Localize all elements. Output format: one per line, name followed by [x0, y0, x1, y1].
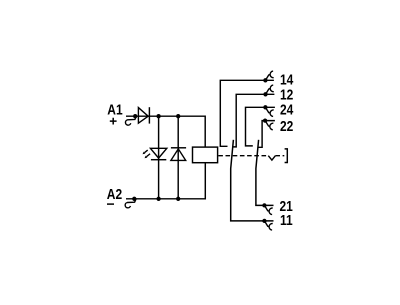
svg-text:24: 24: [280, 101, 294, 118]
svg-text:A2: A2: [107, 186, 123, 203]
svg-text:22: 22: [280, 118, 294, 135]
terminal clamp 21: [265, 206, 273, 215]
LED arrows: [145, 150, 151, 157]
suppressor diode: [171, 149, 186, 161]
node A1 junction: [133, 114, 137, 118]
terminal clamp 24: [266, 108, 274, 117]
svg-text:14: 14: [280, 71, 294, 88]
node bottom diode branch: [176, 197, 180, 201]
wire contact 14: [220, 80, 274, 146]
terminal clamp 11: [265, 221, 273, 230]
node 14: [263, 78, 267, 82]
terminal clamp 22: [265, 121, 273, 130]
node 12: [263, 92, 267, 96]
node 22: [263, 118, 267, 122]
node top diode branch: [176, 114, 180, 118]
contact arm pole 2: [256, 140, 274, 206]
wire contact 22: [258, 121, 275, 148]
wire suppressor branch: [177, 116, 179, 199]
terminal clamp A2: [125, 199, 136, 208]
terminal clamp 12: [266, 85, 274, 94]
plus sign: [110, 118, 117, 125]
mechanical link dashed: [218, 155, 284, 157]
wire A1 top rail to coil: [126, 116, 205, 147]
LED indicator: [150, 148, 166, 158]
svg-text:11: 11: [280, 212, 293, 229]
wire contact 12: [233, 94, 274, 147]
node 21: [262, 203, 266, 207]
relay coil K1: [193, 147, 218, 163]
node bottom LED branch: [156, 197, 160, 201]
node 24: [263, 105, 267, 109]
svg-text:12: 12: [280, 86, 294, 103]
node 11: [262, 219, 266, 223]
terminal clamp 14: [266, 71, 274, 80]
contact arm pole 1: [231, 140, 274, 221]
minus sign: [107, 203, 114, 205]
diode D1: [138, 108, 148, 124]
node top LED branch: [156, 114, 160, 118]
terminal clamp A1: [125, 117, 136, 126]
svg-text:A1: A1: [107, 101, 123, 118]
node A2 junction: [132, 197, 136, 201]
wire contact 24: [246, 107, 275, 146]
link position notch: [268, 156, 275, 160]
manual actuator bracket: [285, 149, 288, 163]
wire coil bottom to A2 rail: [126, 163, 205, 199]
wire LED branch: [158, 116, 160, 199]
